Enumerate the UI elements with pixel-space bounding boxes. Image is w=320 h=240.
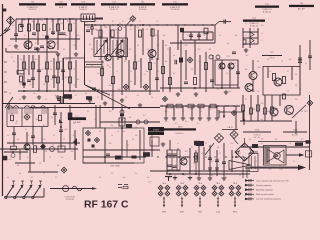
svg-text:6,8: 6,8 bbox=[198, 49, 201, 51]
svg-text:25: 25 bbox=[181, 91, 183, 93]
svg-text:100: 100 bbox=[257, 91, 260, 93]
svg-text:4n7: 4n7 bbox=[138, 61, 141, 63]
svg-text:6,8: 6,8 bbox=[99, 131, 101, 133]
svg-text:15n: 15n bbox=[33, 93, 36, 95]
svg-text:0,5: 0,5 bbox=[187, 35, 189, 37]
svg-text:10k: 10k bbox=[71, 151, 74, 153]
svg-text:0,5: 0,5 bbox=[239, 175, 241, 177]
svg-text:5k6: 5k6 bbox=[249, 139, 252, 141]
svg-text:50: 50 bbox=[165, 121, 167, 123]
svg-text:68: 68 bbox=[173, 55, 175, 57]
svg-text:25: 25 bbox=[253, 29, 255, 31]
svg-text:TA 10: TA 10 bbox=[178, 125, 183, 128]
svg-text:4k7: 4k7 bbox=[255, 161, 258, 163]
svg-text:10k: 10k bbox=[17, 49, 20, 51]
svg-text:2n: 2n bbox=[247, 89, 249, 91]
svg-text:4k7: 4k7 bbox=[211, 161, 214, 163]
svg-text:1k2: 1k2 bbox=[36, 119, 39, 121]
svg-text:47: 47 bbox=[245, 99, 247, 101]
svg-text:12: 12 bbox=[89, 135, 91, 137]
svg-text:8,2: 8,2 bbox=[157, 45, 159, 47]
svg-text:8,2: 8,2 bbox=[95, 21, 97, 23]
svg-text:0,1: 0,1 bbox=[144, 74, 147, 76]
svg-text:33: 33 bbox=[91, 65, 93, 67]
svg-text:15n: 15n bbox=[183, 175, 186, 177]
svg-text:25: 25 bbox=[94, 119, 96, 121]
svg-text:100: 100 bbox=[275, 139, 278, 141]
svg-text:68: 68 bbox=[75, 20, 77, 22]
svg-text:0,1: 0,1 bbox=[27, 157, 29, 159]
svg-text:25: 25 bbox=[191, 147, 193, 149]
svg-text:5k6: 5k6 bbox=[229, 91, 232, 93]
svg-text:100: 100 bbox=[147, 177, 150, 179]
svg-text:00 141 D +: 00 141 D + bbox=[176, 133, 185, 135]
svg-text:4n7: 4n7 bbox=[30, 84, 33, 86]
svg-text:B 185-00: B 185-00 bbox=[250, 25, 259, 27]
svg-text:12: 12 bbox=[167, 49, 169, 51]
svg-text:TA 2: TA 2 bbox=[233, 182, 237, 185]
svg-text:47: 47 bbox=[49, 157, 51, 159]
svg-text:Ceramic insulating capacitor: Ceramic insulating capacitor bbox=[256, 198, 281, 201]
svg-text:12: 12 bbox=[203, 35, 205, 37]
svg-text:M 9810: M 9810 bbox=[153, 130, 159, 132]
svg-text:0,1: 0,1 bbox=[245, 23, 247, 25]
svg-text:47: 47 bbox=[89, 81, 91, 83]
svg-text:25: 25 bbox=[207, 121, 209, 123]
svg-text:12: 12 bbox=[200, 111, 202, 113]
svg-text:4n7: 4n7 bbox=[175, 123, 178, 125]
svg-text:5k6: 5k6 bbox=[32, 21, 35, 23]
svg-text:220: 220 bbox=[109, 111, 112, 113]
svg-text:5k6: 5k6 bbox=[267, 111, 270, 113]
svg-text:5k6: 5k6 bbox=[245, 69, 248, 71]
svg-text:4n7: 4n7 bbox=[12, 25, 15, 27]
svg-text:4n7: 4n7 bbox=[7, 177, 10, 179]
svg-text:15n: 15n bbox=[85, 22, 88, 24]
svg-text:5: 5 bbox=[33, 45, 34, 47]
svg-text:39: 39 bbox=[301, 111, 303, 113]
svg-text:47: 47 bbox=[287, 71, 289, 73]
svg-text:10k: 10k bbox=[235, 35, 238, 37]
svg-text:0,1: 0,1 bbox=[31, 177, 33, 179]
svg-text:2n: 2n bbox=[115, 29, 117, 31]
svg-text:4k7: 4k7 bbox=[130, 26, 133, 28]
svg-text:15n: 15n bbox=[147, 49, 150, 51]
svg-text:10k: 10k bbox=[43, 84, 46, 86]
svg-text:25: 25 bbox=[39, 163, 41, 165]
svg-text:25: 25 bbox=[157, 71, 159, 73]
svg-text:560: 560 bbox=[50, 61, 53, 63]
svg-text:10k: 10k bbox=[19, 23, 22, 25]
svg-text:15n: 15n bbox=[35, 59, 38, 61]
svg-text:T 162: T 162 bbox=[292, 130, 298, 132]
svg-text:30 08 05: 30 08 05 bbox=[139, 9, 148, 11]
svg-text:0,1: 0,1 bbox=[169, 89, 171, 91]
svg-text:2n: 2n bbox=[117, 131, 119, 133]
svg-text:8,2: 8,2 bbox=[197, 177, 199, 179]
svg-text:4k7: 4k7 bbox=[73, 135, 76, 137]
svg-text:39: 39 bbox=[135, 127, 137, 129]
svg-text:1k2: 1k2 bbox=[165, 45, 168, 47]
svg-text:F 568 20: F 568 20 bbox=[253, 134, 260, 136]
svg-text:0,5: 0,5 bbox=[201, 153, 203, 155]
svg-text:68: 68 bbox=[146, 29, 148, 31]
svg-text:0,5: 0,5 bbox=[122, 21, 124, 23]
svg-text:91 040 46: 91 040 46 bbox=[171, 9, 181, 11]
svg-text:25: 25 bbox=[62, 85, 64, 87]
svg-text:6,8: 6,8 bbox=[261, 139, 263, 141]
svg-text:5k6: 5k6 bbox=[289, 59, 292, 61]
svg-text:50: 50 bbox=[111, 135, 113, 137]
svg-text:4k7: 4k7 bbox=[19, 153, 22, 155]
svg-text:6F40: 6F40 bbox=[162, 212, 166, 214]
svg-text:DR 1: DR 1 bbox=[304, 111, 308, 113]
svg-text:47: 47 bbox=[205, 143, 207, 145]
svg-text:15n: 15n bbox=[165, 61, 168, 63]
svg-text:6M0: 6M0 bbox=[198, 212, 202, 214]
svg-text:1k2: 1k2 bbox=[9, 93, 12, 95]
svg-text:100: 100 bbox=[107, 49, 110, 51]
svg-text:0,1: 0,1 bbox=[24, 35, 26, 37]
svg-text:4k7: 4k7 bbox=[195, 43, 198, 45]
svg-text:10k: 10k bbox=[17, 165, 20, 167]
svg-text:AC 187: AC 187 bbox=[298, 8, 306, 11]
svg-text:5k6: 5k6 bbox=[91, 49, 94, 51]
svg-text:0,5: 0,5 bbox=[75, 95, 77, 97]
svg-text:39: 39 bbox=[149, 87, 151, 89]
svg-text:25: 25 bbox=[43, 173, 45, 175]
svg-text:8,2: 8,2 bbox=[89, 44, 91, 46]
svg-text:50: 50 bbox=[130, 71, 132, 73]
svg-text:15n: 15n bbox=[155, 35, 158, 37]
svg-text:33: 33 bbox=[65, 103, 67, 105]
svg-text:4n7: 4n7 bbox=[123, 131, 126, 133]
svg-text:4k7: 4k7 bbox=[209, 49, 212, 51]
svg-text:8,2: 8,2 bbox=[27, 135, 29, 137]
svg-text:15n: 15n bbox=[17, 139, 20, 141]
svg-text:10k: 10k bbox=[151, 97, 154, 99]
svg-text:50: 50 bbox=[50, 69, 52, 71]
svg-text:39: 39 bbox=[130, 29, 132, 31]
svg-text:Wire wound resistor: Wire wound resistor bbox=[256, 193, 274, 196]
svg-text:560: 560 bbox=[104, 26, 107, 28]
svg-text:6,8: 6,8 bbox=[111, 95, 113, 97]
svg-text:2n: 2n bbox=[73, 23, 75, 25]
svg-text:Case network and alternate ite: Case network and alternate item ON bbox=[256, 179, 289, 182]
svg-text:0,1: 0,1 bbox=[267, 59, 269, 61]
svg-text:39: 39 bbox=[281, 61, 283, 63]
svg-text:68: 68 bbox=[132, 139, 134, 141]
svg-text:10k: 10k bbox=[135, 135, 138, 137]
svg-text:33: 33 bbox=[173, 109, 175, 111]
svg-text:12: 12 bbox=[139, 21, 141, 23]
svg-text:100: 100 bbox=[129, 117, 132, 119]
svg-text:50: 50 bbox=[125, 97, 127, 99]
svg-text:AC 194: AC 194 bbox=[292, 133, 298, 136]
svg-text:0,5: 0,5 bbox=[60, 61, 62, 63]
svg-text:12: 12 bbox=[219, 153, 221, 155]
svg-text:4n7: 4n7 bbox=[137, 95, 140, 97]
svg-text:100: 100 bbox=[15, 123, 18, 125]
svg-text:47: 47 bbox=[73, 85, 75, 87]
svg-text:RF 167 C: RF 167 C bbox=[84, 199, 129, 210]
svg-text:220: 220 bbox=[60, 23, 63, 25]
svg-text:4n7: 4n7 bbox=[227, 43, 230, 45]
svg-text:B 185 00: B 185 00 bbox=[263, 11, 272, 13]
svg-text:33: 33 bbox=[73, 123, 75, 125]
svg-text:50: 50 bbox=[219, 35, 221, 37]
svg-text:4n7: 4n7 bbox=[9, 45, 12, 47]
svg-text:4n7: 4n7 bbox=[61, 157, 64, 159]
svg-text:TA 6: TA 6 bbox=[162, 182, 166, 185]
svg-text:TA 8: TA 8 bbox=[180, 182, 184, 185]
svg-text:8,2: 8,2 bbox=[45, 99, 47, 101]
svg-text:47: 47 bbox=[193, 89, 195, 91]
svg-text:OA 70: OA 70 bbox=[228, 126, 233, 129]
svg-text:90 08 05: 90 08 05 bbox=[79, 9, 88, 11]
svg-text:47: 47 bbox=[87, 141, 89, 143]
svg-text:1k2: 1k2 bbox=[137, 27, 140, 29]
svg-text:47: 47 bbox=[55, 43, 57, 45]
svg-text:2n: 2n bbox=[99, 45, 101, 47]
svg-text:Persian capacitor: Persian capacitor bbox=[256, 184, 272, 187]
svg-text:15n: 15n bbox=[109, 143, 112, 145]
svg-text:4n7: 4n7 bbox=[65, 77, 68, 79]
svg-text:50: 50 bbox=[156, 21, 158, 23]
svg-text:6,8: 6,8 bbox=[124, 61, 126, 63]
svg-text:47: 47 bbox=[245, 35, 247, 37]
svg-text:560: 560 bbox=[185, 151, 188, 153]
svg-text:5k6: 5k6 bbox=[123, 177, 126, 179]
svg-text:25: 25 bbox=[109, 67, 111, 69]
svg-text:0,1: 0,1 bbox=[87, 111, 89, 113]
svg-text:12: 12 bbox=[218, 69, 220, 71]
svg-text:1k: 1k bbox=[42, 35, 44, 37]
svg-text:68: 68 bbox=[19, 99, 21, 101]
svg-text:39: 39 bbox=[287, 91, 289, 93]
svg-text:560: 560 bbox=[55, 95, 58, 97]
svg-text:0,5: 0,5 bbox=[11, 149, 13, 151]
svg-text:220: 220 bbox=[95, 29, 98, 31]
svg-text:39: 39 bbox=[25, 129, 27, 131]
svg-text:46 7 20: 46 7 20 bbox=[254, 137, 260, 139]
svg-text:15n: 15n bbox=[167, 153, 170, 155]
svg-text:12: 12 bbox=[116, 71, 118, 73]
svg-text:T57: T57 bbox=[226, 56, 229, 58]
svg-text:6,8: 6,8 bbox=[231, 161, 233, 163]
svg-text:68: 68 bbox=[26, 69, 28, 71]
svg-text:25: 25 bbox=[269, 71, 271, 73]
svg-text:4k7: 4k7 bbox=[107, 65, 110, 67]
svg-text:1k2: 1k2 bbox=[67, 21, 70, 23]
svg-text:100-07: 100-07 bbox=[269, 58, 275, 60]
svg-text:2n: 2n bbox=[279, 99, 281, 101]
svg-text:5k6: 5k6 bbox=[111, 125, 114, 127]
svg-text:560: 560 bbox=[163, 35, 166, 37]
svg-text:10k: 10k bbox=[146, 71, 149, 73]
svg-text:220: 220 bbox=[261, 25, 264, 27]
svg-text:12: 12 bbox=[97, 97, 99, 99]
svg-text:1k2: 1k2 bbox=[249, 121, 252, 123]
svg-text:4n7: 4n7 bbox=[246, 55, 249, 57]
svg-text:68: 68 bbox=[169, 177, 171, 179]
svg-text:TRF 1 MW: TRF 1 MW bbox=[110, 166, 119, 168]
svg-text:8,2: 8,2 bbox=[175, 165, 177, 167]
svg-text:33: 33 bbox=[193, 163, 195, 165]
svg-text:12: 12 bbox=[267, 157, 269, 159]
svg-text:6F12: 6F12 bbox=[233, 212, 237, 214]
svg-text:220: 220 bbox=[217, 89, 220, 91]
svg-text:6,8: 6,8 bbox=[77, 79, 79, 81]
svg-text:6,8: 6,8 bbox=[226, 73, 228, 75]
svg-text:10k: 10k bbox=[185, 121, 188, 123]
svg-text:33: 33 bbox=[112, 21, 114, 23]
svg-text:39: 39 bbox=[289, 143, 291, 145]
svg-text:220: 220 bbox=[231, 143, 234, 145]
svg-text:50: 50 bbox=[239, 153, 241, 155]
svg-text:68: 68 bbox=[137, 45, 139, 47]
svg-text:6,8: 6,8 bbox=[45, 151, 47, 153]
svg-text:0,1: 0,1 bbox=[177, 143, 179, 145]
svg-text:6,8: 6,8 bbox=[149, 26, 151, 28]
svg-text:(1N): (1N) bbox=[279, 169, 283, 171]
svg-text:8,2: 8,2 bbox=[59, 121, 61, 123]
svg-text:220: 220 bbox=[111, 173, 114, 175]
svg-text:4k7: 4k7 bbox=[66, 59, 69, 61]
svg-text:0,5: 0,5 bbox=[63, 139, 65, 141]
svg-text:220: 220 bbox=[253, 91, 256, 93]
svg-text:25: 25 bbox=[43, 49, 45, 51]
svg-text:1k2: 1k2 bbox=[129, 49, 132, 51]
svg-text:50: 50 bbox=[234, 63, 236, 65]
svg-text:53 09 15: 53 09 15 bbox=[110, 9, 119, 11]
svg-text:10k: 10k bbox=[19, 173, 22, 175]
svg-text:NETWORK: NETWORK bbox=[66, 199, 75, 201]
svg-text:8,2: 8,2 bbox=[42, 69, 44, 71]
svg-text:T 161: T 161 bbox=[254, 130, 260, 132]
svg-text:10k: 10k bbox=[257, 61, 260, 63]
svg-text:220: 220 bbox=[23, 20, 26, 22]
svg-text:0,5: 0,5 bbox=[182, 111, 184, 113]
svg-text:6,8: 6,8 bbox=[211, 43, 213, 45]
svg-text:47: 47 bbox=[43, 23, 45, 25]
svg-text:68: 68 bbox=[43, 125, 45, 127]
svg-text:2n: 2n bbox=[135, 173, 137, 175]
svg-text:1k2: 1k2 bbox=[143, 115, 146, 117]
svg-text:220: 220 bbox=[261, 103, 264, 105]
svg-text:560: 560 bbox=[65, 129, 68, 131]
svg-text:50: 50 bbox=[293, 161, 295, 163]
svg-text:12: 12 bbox=[36, 147, 38, 149]
svg-text:1k: 1k bbox=[13, 61, 15, 63]
svg-text:2n: 2n bbox=[130, 81, 132, 83]
svg-text:0,1: 0,1 bbox=[51, 79, 53, 81]
svg-text:6,8: 6,8 bbox=[279, 165, 281, 167]
svg-text:100: 100 bbox=[77, 35, 80, 37]
svg-text:39: 39 bbox=[115, 45, 117, 47]
svg-text:1k2: 1k2 bbox=[301, 139, 304, 141]
svg-text:8,2: 8,2 bbox=[127, 145, 129, 147]
svg-text:39: 39 bbox=[11, 57, 13, 59]
svg-text:25: 25 bbox=[34, 35, 36, 37]
svg-text:50: 50 bbox=[52, 145, 54, 147]
svg-text:1k: 1k bbox=[295, 74, 297, 76]
svg-text:TA 4: TA 4 bbox=[216, 182, 220, 185]
svg-text:TA 6: TA 6 bbox=[198, 182, 202, 185]
svg-text:15n: 15n bbox=[51, 117, 54, 119]
svg-text:0,5: 0,5 bbox=[198, 61, 200, 63]
svg-text:100: 100 bbox=[295, 99, 298, 101]
svg-text:0,5: 0,5 bbox=[97, 73, 99, 75]
svg-text:Mounting capacitor: Mounting capacitor bbox=[256, 189, 273, 192]
svg-text:33: 33 bbox=[171, 43, 173, 45]
svg-text:1k2: 1k2 bbox=[299, 89, 302, 91]
svg-text:100: 100 bbox=[265, 55, 268, 57]
svg-text:560: 560 bbox=[43, 139, 46, 141]
svg-text:33: 33 bbox=[191, 69, 193, 71]
svg-text:560: 560 bbox=[99, 59, 102, 61]
svg-text:2n: 2n bbox=[261, 143, 263, 145]
svg-text:560: 560 bbox=[165, 111, 168, 113]
svg-text:0-40: 0-40 bbox=[216, 212, 220, 214]
svg-text:5k6: 5k6 bbox=[65, 35, 68, 37]
svg-text:100: 100 bbox=[51, 21, 54, 23]
svg-text:560: 560 bbox=[211, 175, 214, 177]
svg-text:6M0: 6M0 bbox=[268, 169, 271, 171]
svg-text:47: 47 bbox=[55, 177, 57, 179]
svg-text:2n: 2n bbox=[305, 63, 307, 65]
svg-text:0,1: 0,1 bbox=[197, 123, 199, 125]
svg-text:50: 50 bbox=[19, 84, 21, 86]
svg-text:68: 68 bbox=[261, 119, 263, 121]
svg-text:100: 100 bbox=[141, 91, 144, 93]
svg-text:91 09 15: 91 09 15 bbox=[29, 9, 38, 11]
svg-text:560: 560 bbox=[185, 45, 188, 47]
svg-text:5k6: 5k6 bbox=[118, 89, 121, 91]
svg-text:2n: 2n bbox=[41, 20, 43, 22]
svg-text:33: 33 bbox=[55, 69, 57, 71]
svg-text:39: 39 bbox=[59, 20, 61, 22]
svg-text:100: 100 bbox=[123, 27, 126, 29]
svg-text:0,1: 0,1 bbox=[154, 63, 156, 65]
svg-text:8,2: 8,2 bbox=[173, 73, 175, 75]
svg-text:4n7: 4n7 bbox=[9, 159, 12, 161]
svg-text:220: 220 bbox=[73, 45, 76, 47]
svg-text:0,1: 0,1 bbox=[35, 43, 37, 45]
svg-text:1k2: 1k2 bbox=[20, 59, 23, 61]
svg-text:6M0: 6M0 bbox=[180, 212, 184, 214]
svg-text:33: 33 bbox=[53, 135, 55, 137]
svg-text:4k7: 4k7 bbox=[85, 93, 88, 95]
svg-text:6,8: 6,8 bbox=[209, 109, 211, 111]
svg-text:220: 220 bbox=[109, 85, 112, 87]
svg-text:12: 12 bbox=[73, 69, 75, 71]
svg-text:4k7: 4k7 bbox=[191, 109, 194, 111]
svg-text:2n: 2n bbox=[11, 113, 13, 115]
svg-text:33: 33 bbox=[225, 177, 227, 179]
svg-text:~: ~ bbox=[308, 153, 310, 157]
svg-text:4V7: 4V7 bbox=[257, 67, 260, 69]
svg-text:68: 68 bbox=[7, 135, 9, 137]
